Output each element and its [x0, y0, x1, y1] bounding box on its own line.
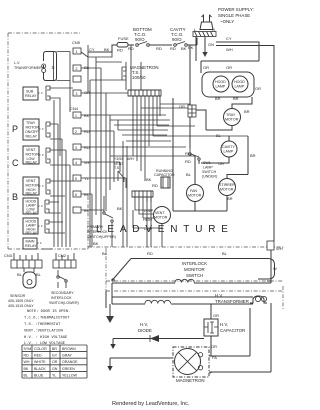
svg-text:OR: OR — [84, 90, 90, 95]
svg-text:BL: BL — [186, 172, 192, 177]
svg-text:GN: GN — [208, 42, 214, 47]
primary interlock switch S1 — [87, 196, 123, 247]
svg-text:~ONLY: ~ONLY — [220, 19, 234, 24]
svg-text:OR: OR — [52, 360, 58, 364]
svg-text:MAGNETRON: MAGNETRON — [176, 378, 205, 383]
svg-text:POWER SUPPLY:: POWER SUPPLY: — [218, 7, 254, 12]
svg-text:INTERLOCK: INTERLOCK — [182, 261, 207, 266]
svg-text:BL: BL — [24, 373, 28, 377]
svg-text:BLACK: BLACK — [34, 367, 46, 371]
svg-text:HIGH: HIGH — [143, 218, 152, 222]
svg-text:SWITCH(UPPER): SWITCH(UPPER) — [87, 235, 116, 239]
wire BK to chassis run — [196, 37, 259, 74]
svg-text:WH: WH — [127, 156, 134, 161]
OR connector 2x3 — [179, 104, 196, 117]
svg-text:B: B — [12, 192, 18, 202]
svg-text:GN: GN — [52, 367, 58, 371]
svg-text:P: P — [12, 124, 18, 134]
wire mesh center — [81, 96, 248, 247]
svg-text:S: S — [52, 65, 55, 70]
wire mesh upper middle — [81, 45, 141, 247]
svg-text:RD: RD — [24, 354, 30, 358]
svg-text:1: 1 — [76, 50, 78, 54]
svg-text:T.S.: T.S. — [114, 166, 120, 170]
svg-text:RD: RD — [147, 251, 153, 256]
svg-text:HOOD: HOOD — [215, 80, 226, 84]
sensor — [8, 268, 42, 308]
svg-text:L.V.: L.V. — [14, 61, 20, 65]
svg-text:COLOR: COLOR — [34, 347, 47, 351]
H.V. transformer — [106, 248, 283, 310]
hood lamp high relay K6 — [23, 218, 49, 235]
svg-text:BK: BK — [104, 47, 110, 52]
svg-text:DIODE: DIODE — [138, 328, 152, 333]
svg-text:2: 2 — [75, 130, 77, 134]
svg-text:BK: BK — [84, 208, 90, 213]
vent motor low relay K3 — [23, 146, 50, 165]
lower dashed chassis line — [88, 246, 285, 248]
svg-text:OR: OR — [255, 86, 261, 91]
svg-text:WH: WH — [276, 246, 283, 251]
svg-text:GREEN: GREEN — [62, 367, 75, 371]
connector strip CN6 — [132, 191, 153, 197]
svg-text:MOTOR: MOTOR — [154, 216, 168, 220]
magnetron T.S. label — [122, 65, 159, 80]
svg-text:CAPACITOR: CAPACITOR — [154, 173, 175, 177]
fuse FZ — [88, 36, 134, 53]
svg-text:BROWN: BROWN — [62, 347, 76, 351]
notes text — [24, 310, 70, 346]
svg-text:TRAY: TRAY — [26, 121, 36, 125]
svg-text:RELAY: RELAY — [26, 192, 38, 196]
vent motor high relay K4 — [23, 177, 50, 196]
svg-text:SINGLE PHASE: SINGLE PHASE — [218, 13, 250, 18]
svg-text:CY: CY — [226, 36, 232, 41]
svg-text:WHITE: WHITE — [34, 360, 46, 364]
svg-text:SENSOR: SENSOR — [10, 294, 26, 298]
svg-text:PRIMARY: PRIMARY — [87, 225, 104, 229]
tray motor on/off relay K2 — [23, 119, 50, 140]
main relay K7 — [23, 238, 42, 249]
svg-text:RELAY: RELAY — [26, 161, 38, 165]
svg-text:H.V.: H.V. — [220, 322, 228, 327]
svg-text:YL: YL — [84, 176, 90, 181]
CN3 connector — [4, 253, 42, 268]
svg-text:RED: RED — [34, 354, 42, 358]
svg-text:BK: BK — [146, 177, 152, 182]
svg-text:RD: RD — [117, 48, 123, 53]
svg-text:BL: BL — [216, 133, 222, 138]
svg-text:BR: BR — [244, 109, 250, 114]
ground wire GN with arrow — [188, 37, 214, 58]
svg-text:RD: RD — [84, 145, 90, 150]
svg-text:OR: OR — [226, 65, 232, 70]
svg-text:CAPACITOR: CAPACITOR — [220, 328, 245, 333]
svg-text:CAVITY: CAVITY — [222, 145, 235, 149]
svg-text:ON/OFF: ON/OFF — [25, 130, 39, 134]
svg-text:RD: RD — [170, 46, 176, 51]
svg-text:BK: BK — [84, 65, 90, 70]
svg-text:MOTOR: MOTOR — [188, 194, 202, 198]
svg-text:T.C.O.:THERMALCUTOUT: T.C.O.:THERMALCUTOUT — [24, 317, 70, 321]
svg-text:2: 2 — [76, 67, 78, 71]
svg-text:LEADVENTURE: LEADVENTURE — [96, 224, 234, 235]
svg-text:CN5: CN5 — [72, 40, 81, 45]
svg-text:BK: BK — [24, 367, 29, 371]
svg-text:BLUE: BLUE — [34, 373, 44, 377]
svg-text:YELLOW: YELLOW — [62, 373, 78, 377]
svg-text:BK: BK — [117, 206, 123, 211]
svg-text:RELAY: RELAY — [26, 231, 38, 235]
CN2 connector — [53, 253, 76, 268]
svg-text:6: 6 — [75, 193, 77, 197]
svg-text:SW1: SW1 — [203, 161, 211, 165]
svg-text:SUB: SUB — [26, 90, 34, 94]
wire WH — [216, 46, 274, 242]
svg-text:FUSE: FUSE — [118, 36, 129, 41]
svg-text:TRANSFORMER: TRANSFORMER — [215, 299, 249, 304]
svg-text:1: 1 — [75, 114, 77, 118]
power supply label — [218, 7, 254, 24]
SW1 lamp switch — [185, 148, 217, 179]
svg-text:H.V.: H.V. — [215, 293, 223, 298]
svg-text:C: C — [12, 158, 19, 168]
hood lamps circuit — [202, 65, 261, 101]
svg-text:H.V. : HIGH VOLTAGE: H.V. : HIGH VOLTAGE — [24, 336, 68, 340]
svg-text:YL: YL — [52, 373, 56, 377]
svg-text:BL: BL — [17, 272, 23, 277]
svg-text:SECONDARY: SECONDARY — [51, 291, 74, 295]
fan motor M4 — [173, 98, 227, 211]
svg-text:90/O: 90/O — [135, 37, 145, 42]
svg-text:Rendered by LeadVenture, Inc.: Rendered by LeadVenture, Inc. — [112, 401, 190, 407]
svg-text:TRANSFORMER: TRANSFORMER — [14, 66, 42, 70]
svg-text:OR: OR — [179, 104, 185, 109]
svg-text:T.S. :THERMOSTAT: T.S. :THERMOSTAT — [24, 323, 61, 327]
svg-text:RD: RD — [156, 46, 162, 51]
svg-text:VENT: VENT — [26, 148, 36, 152]
svg-text:VENT: VENT — [155, 211, 165, 215]
svg-text:MOTOR: MOTOR — [26, 153, 40, 157]
secondary interlock switch S2 — [49, 270, 79, 305]
right edge connector — [267, 241, 283, 281]
svg-text:WH: WH — [226, 47, 233, 52]
svg-text:GRAY: GRAY — [62, 354, 73, 358]
svg-text:5: 5 — [75, 177, 77, 181]
H.V. capacitor C1 — [204, 304, 245, 346]
svg-text:MONITOR: MONITOR — [184, 267, 205, 272]
bottom T.C.O. — [128, 27, 172, 51]
svg-text:H.V.: H.V. — [140, 322, 148, 327]
svg-text:3: 3 — [76, 92, 78, 96]
hood lamp 2 — [232, 76, 248, 92]
vent T.S. — [114, 156, 134, 182]
wires relay column to CN pins — [42, 88, 73, 249]
svg-text:OR: OR — [203, 65, 209, 70]
color code table — [22, 345, 87, 378]
svg-text:BK: BK — [84, 192, 90, 197]
svg-text:3: 3 — [75, 146, 77, 150]
L.V. transformer — [14, 52, 70, 113]
power plug — [200, 15, 213, 30]
svg-text:MOTOR: MOTOR — [220, 188, 234, 192]
H.V. diode D1 — [110, 322, 204, 349]
svg-text:BK: BK — [84, 113, 90, 118]
svg-text:BK: BK — [102, 251, 108, 256]
svg-text:BR: BR — [227, 196, 233, 201]
connector CN5 — [72, 40, 95, 96]
svg-text:INTERLOCK: INTERLOCK — [87, 230, 108, 234]
hood lamp 1 — [213, 76, 229, 92]
running capacitor — [146, 169, 175, 188]
svg-text:SWITCH: SWITCH — [202, 170, 217, 174]
svg-text:BK: BK — [188, 45, 194, 50]
svg-text:VENT.:VENTILATION: VENT.:VENTILATION — [24, 330, 63, 334]
hood lamp low relay K5 — [23, 198, 49, 215]
svg-text:90/O: 90/O — [172, 37, 182, 42]
svg-text:(UNDER): (UNDER) — [202, 175, 217, 179]
svg-text:SWITCH(LOWER): SWITCH(LOWER) — [49, 301, 79, 305]
svg-text:LAMP: LAMP — [203, 166, 213, 170]
svg-text:RD: RD — [185, 159, 191, 164]
svg-text:MOTOR: MOTOR — [26, 126, 40, 130]
ground chassis arrow — [106, 304, 114, 323]
svg-text:RELAY: RELAY — [25, 94, 37, 98]
svg-text:BR: BR — [52, 347, 57, 351]
svg-text:BL: BL — [222, 251, 228, 256]
svg-text:RD: RD — [185, 151, 191, 156]
svg-text:GY: GY — [52, 354, 58, 358]
connector CN4 — [70, 106, 91, 213]
svg-text:BK: BK — [93, 241, 99, 246]
svg-text:ORANGE: ORANGE — [62, 360, 78, 364]
interlock monitor switch S3 — [106, 259, 283, 282]
svg-text:RD: RD — [84, 129, 90, 134]
svg-text:TRAY: TRAY — [226, 113, 236, 117]
svg-text:RELAY: RELAY — [26, 135, 38, 139]
terminal block L N — [193, 27, 216, 37]
svg-text:STIRRER: STIRRER — [219, 183, 235, 187]
svg-text:NOTE: DOOR IS OPEN.: NOTE: DOOR IS OPEN. — [27, 310, 70, 314]
svg-text:LAMP: LAMP — [216, 85, 226, 89]
cavity T.C.O. — [170, 27, 197, 148]
wire CY from N — [216, 36, 259, 61]
filament winding — [250, 296, 267, 303]
svg-text:SYM: SYM — [24, 347, 32, 351]
stirrer motor M3 — [219, 175, 249, 212]
svg-text:RELAY: RELAY — [26, 211, 38, 215]
svg-text:RD: RD — [152, 183, 158, 188]
svg-text:W: W — [273, 266, 277, 271]
magnetron V1 — [107, 303, 271, 383]
svg-text:LAMP: LAMP — [224, 150, 234, 154]
svg-text:4: 4 — [75, 161, 77, 165]
svg-text:SWITCH: SWITCH — [186, 273, 203, 278]
svg-text:405-1505 ONLY: 405-1505 ONLY — [8, 299, 34, 303]
svg-text:CY: CY — [89, 47, 95, 52]
svg-text:CN4: CN4 — [70, 106, 79, 111]
vent motor M1 — [133, 197, 171, 247]
svg-text:OR: OR — [211, 344, 217, 349]
svg-text:MAIN: MAIN — [26, 240, 35, 244]
svg-text:BR: BR — [233, 96, 239, 101]
svg-text:LAMP: LAMP — [235, 85, 245, 89]
tray motor M2 — [196, 97, 252, 130]
svg-text:100/50: 100/50 — [132, 75, 146, 80]
svg-text:OR: OR — [213, 313, 219, 318]
svg-text:MOTOR: MOTOR — [26, 184, 40, 188]
svg-text:VENT: VENT — [26, 179, 36, 183]
svg-text:INTERLOCK: INTERLOCK — [51, 296, 72, 300]
svg-text:BR: BR — [250, 153, 256, 158]
sub relay K1 — [23, 86, 50, 100]
svg-text:+3/54: +3/54 — [114, 157, 123, 161]
svg-text:OR: OR — [218, 161, 224, 166]
svg-text:BL: BL — [36, 272, 42, 277]
svg-text:BK: BK — [181, 46, 187, 51]
svg-text:405-1515 ONLY: 405-1515 ONLY — [8, 304, 34, 308]
svg-text:WH: WH — [24, 360, 30, 364]
control board dashed outline — [8, 33, 88, 249]
svg-text:MOTOR: MOTOR — [225, 118, 239, 122]
svg-text:HOOD: HOOD — [234, 80, 245, 84]
svg-text:FAN: FAN — [190, 189, 197, 193]
svg-text:BR: BR — [215, 96, 221, 101]
cavity lamp L3 — [199, 133, 256, 175]
svg-text:CN3: CN3 — [4, 253, 13, 258]
connector strip CN1 (horizontal) — [128, 90, 161, 96]
svg-text:RELAY: RELAY — [25, 244, 37, 248]
